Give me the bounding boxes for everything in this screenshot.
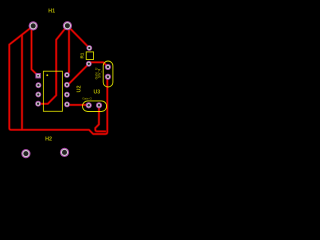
board background <box>0 0 122 173</box>
pad U1 pin4 <box>35 101 41 107</box>
pad U1 pin5 <box>64 102 70 108</box>
wire top pad 2 to U1 pin 5 via inside body (halo) <box>38 26 67 104</box>
pad H2 mounting hole <box>21 149 30 158</box>
op-amp U1 pin1 dot <box>46 74 48 76</box>
wire top pad 2 down to U1 pin 8 (halo) <box>67 26 69 75</box>
silkscreen layer <box>43 52 112 112</box>
pads layer <box>21 21 111 158</box>
wire U1 pin 5 to U3 left pad (core) <box>67 103 89 106</box>
pad bottom-middle mounting hole <box>60 148 69 157</box>
wire branch vertical x=22 (core) <box>21 35 23 130</box>
pad H1 mounting hole <box>29 21 38 30</box>
svg-text:H1: H1 <box>48 9 55 15</box>
wire R1 bottom pad to U1 pin 7 (core) <box>67 64 89 85</box>
wire U3 right pad down to bottom rail (core) <box>95 105 105 131</box>
pad Q1 top <box>105 64 111 70</box>
pad U1 pin8 <box>64 72 70 78</box>
op-amp U1 body outline <box>43 71 62 111</box>
svg-text:R1: R1 <box>80 52 85 58</box>
switch U3 body outline <box>83 101 107 112</box>
resistor R1 body outline <box>86 52 93 60</box>
wire R1 bottom pad to U1 pin 7 (halo) <box>67 64 89 85</box>
pad U1 pin1 (square) <box>35 73 40 78</box>
wire H1 pad to left rail, bottom rail, up to Q1 bottom pad (core) <box>9 26 108 134</box>
silkscreen text labels <box>45 9 101 143</box>
wire H1 pad down to U1 pin1 (core) <box>32 28 39 76</box>
svg-text:Gate G: Gate G <box>82 96 92 100</box>
pad U3 left <box>86 102 92 108</box>
pad U1 pin2 <box>36 82 42 88</box>
pad U1 pin6 <box>64 92 70 98</box>
wire R1 bottom pad to Q1 top pad (halo) <box>89 62 108 67</box>
svg-text:SW_4: SW_4 <box>98 69 102 78</box>
pad U1 pin7 <box>64 82 70 88</box>
pad U3 right <box>96 102 102 108</box>
wire top pad 2 to R1 top pad (core) <box>67 26 89 48</box>
pad U1 pin3 <box>35 92 41 98</box>
pad R1 bottom <box>86 61 92 67</box>
pad R1 top <box>86 45 92 51</box>
wire top pad 2 down to U1 pin 8 (core) <box>67 26 69 75</box>
copper traces layer <box>9 26 108 134</box>
wire U1 pin 5 to U3 left pad (halo) <box>67 103 89 106</box>
svg-text:H2: H2 <box>45 136 52 142</box>
pad top-right mounting hole <box>63 21 72 30</box>
wire R1 bottom pad to Q1 top pad (core) <box>89 62 108 67</box>
wire U3 right pad down to bottom rail (halo) <box>95 105 105 131</box>
wire H1 pad to left rail, bottom rail, up to Q1 bottom pad (halo) <box>9 26 108 134</box>
transistor Q1 body outline <box>103 61 113 87</box>
wire H1 pad down to U1 pin1 (halo) <box>32 28 39 76</box>
pad Q1 bottom <box>105 74 111 80</box>
svg-text:U2: U2 <box>77 85 83 92</box>
svg-text:U3: U3 <box>93 89 100 95</box>
wire top pad 2 to U1 pin 5 via inside body (core) <box>38 26 67 104</box>
wire branch vertical x=22 (halo) <box>21 35 23 130</box>
wire top pad 2 to R1 top pad (halo) <box>67 26 89 48</box>
